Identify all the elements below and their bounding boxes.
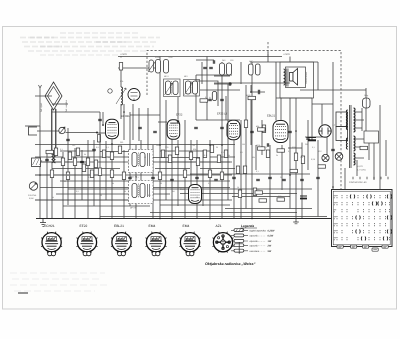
wire — [317, 62, 319, 90]
svg-text:+250V: +250V — [283, 53, 290, 56]
wire — [196, 140, 198, 219]
wire — [150, 180, 230, 182]
wire — [221, 62, 223, 219]
capacitor C17 — [170, 179, 174, 180]
wire — [295, 98, 297, 219]
capacitor C19 — [214, 179, 218, 180]
svg-text:0,2: 0,2 — [288, 150, 291, 153]
junction — [251, 218, 253, 220]
ghost text artifact — [22, 41, 158, 43]
wire antenna lead — [37, 130, 59, 132]
svg-text:7k: 7k — [232, 176, 234, 179]
wire — [210, 156, 235, 158]
resistor R1 — [119, 63, 122, 71]
capacitor C25 — [316, 177, 320, 178]
wire — [240, 120, 242, 219]
legend symbol row 5 — [231, 248, 248, 254]
svg-text:0,2A: 0,2A — [311, 158, 316, 161]
svg-text:0,25W: 0,25W — [268, 229, 276, 232]
resistor R29 — [262, 125, 265, 133]
svg-text:otpornik: otpornik — [250, 245, 259, 248]
wire — [147, 108, 149, 150]
resistor R14 — [161, 150, 164, 158]
svg-text:Osig.: Osig. — [364, 94, 369, 97]
wire — [62, 152, 64, 219]
grid leak resistor — [98, 135, 101, 143]
antenna coupling coil — [52, 150, 56, 163]
capacitor — [258, 90, 259, 94]
wire — [138, 108, 140, 141]
ground bus — [36, 218, 333, 220]
wire — [233, 140, 235, 219]
IF transformer T3 — [220, 63, 232, 75]
junction — [221, 144, 223, 146]
svg-text:2W: 2W — [267, 245, 272, 248]
terminal mark — [380, 177, 382, 180]
capacitor C6 — [250, 131, 254, 132]
svg-text:Legenda: Legenda — [241, 224, 254, 228]
capacitor C3 — [153, 131, 157, 132]
capacitor C13 — [203, 67, 207, 68]
capacitor C14 — [209, 67, 213, 68]
capacitor C1 — [98, 119, 102, 120]
svg-text:6800: 6800 — [209, 97, 212, 101]
svg-text:namotani: namotani — [250, 250, 260, 253]
capacitor C16 — [151, 177, 155, 178]
wire — [129, 112, 131, 206]
wire — [280, 98, 282, 121]
capacitor C23 — [282, 179, 286, 180]
svg-text:1k: 1k — [52, 196, 54, 199]
mains fuse — [363, 98, 371, 108]
svg-text:otpornik: otpornik — [250, 240, 259, 243]
wire — [317, 140, 319, 217]
svg-text:+4,2V: +4,2V — [357, 165, 363, 168]
wire — [102, 112, 104, 125]
wire — [111, 139, 113, 219]
ghost text artifact — [12, 278, 100, 280]
resistor R24 — [243, 166, 246, 174]
resistor R27 — [301, 156, 304, 164]
resistor R36 — [110, 170, 113, 178]
wire — [35, 199, 130, 201]
resistor R34 — [183, 170, 186, 178]
svg-text:0,1: 0,1 — [312, 146, 315, 149]
wire — [305, 136, 327, 138]
dashed chassis boundary — [147, 51, 341, 197]
svg-text:0,5: 0,5 — [96, 146, 99, 149]
resistor R13 — [73, 158, 76, 166]
wire — [267, 52, 269, 62]
tube L4 EBL21 — [273, 121, 288, 143]
tube socket EM4 — [146, 232, 167, 256]
resistor R2 — [54, 148, 57, 156]
resistor R39 — [50, 170, 53, 178]
resistor R22 — [224, 150, 227, 158]
svg-text:0,1: 0,1 — [264, 146, 267, 149]
voltage table row labels — [334, 195, 336, 240]
resistor R23 — [236, 166, 239, 174]
wire — [120, 57, 122, 58]
small oscillator triode — [128, 89, 140, 101]
resistor R20 — [210, 145, 213, 153]
resistor R18 — [196, 158, 199, 166]
IF transformer T1 — [164, 79, 181, 97]
junction — [209, 218, 211, 220]
svg-text:otpornik: otpornik — [250, 235, 259, 238]
svg-text:25k: 25k — [48, 156, 51, 159]
wire — [60, 150, 95, 152]
resistor R17 — [189, 152, 192, 160]
resistor R48 — [318, 165, 326, 168]
table footer box — [337, 245, 343, 248]
svg-text:300: 300 — [120, 141, 123, 144]
wire — [120, 70, 122, 87]
resistor R37 — [122, 172, 125, 180]
tube L2 EF22 — [167, 120, 180, 140]
wire — [105, 141, 107, 200]
capacitor C29 — [208, 99, 212, 100]
capacitor C26 — [331, 149, 335, 150]
svg-text:EF22: EF22 — [176, 114, 183, 117]
wire — [118, 67, 160, 69]
wire — [68, 188, 312, 190]
resistor R11 — [94, 160, 97, 168]
junction — [99, 218, 101, 220]
wire to mixer grid — [66, 132, 97, 134]
wire — [214, 82, 290, 84]
junction — [111, 143, 113, 145]
svg-text:1M: 1M — [180, 156, 183, 159]
padder capacitor — [164, 60, 169, 74]
wire — [288, 147, 302, 149]
wire — [225, 208, 312, 210]
resistor R3 — [68, 152, 71, 160]
wire — [250, 96, 252, 145]
resistor R42 — [258, 147, 266, 150]
wire — [240, 62, 242, 84]
legend symbol row 2 — [231, 234, 248, 237]
svg-text:70k: 70k — [192, 144, 195, 147]
svg-text:ECH21: ECH21 — [121, 115, 130, 118]
oscillator coil box 2 — [129, 181, 154, 204]
resistor R7 — [90, 170, 93, 178]
capacitor C22 — [268, 177, 272, 178]
capacitor C21 — [256, 179, 260, 180]
band switch box — [32, 158, 43, 167]
svg-text:MF I: MF I — [184, 75, 188, 78]
svg-text:3M: 3M — [172, 190, 175, 193]
svg-text:60: 60 — [160, 182, 162, 185]
junction — [67, 174, 69, 176]
ghost text artifact — [24, 46, 154, 48]
wire — [269, 145, 271, 219]
svg-text:10k: 10k — [156, 144, 159, 147]
junction — [209, 144, 211, 146]
junction — [102, 124, 104, 126]
wire — [251, 85, 265, 92]
wire — [39, 126, 41, 219]
svg-text:8k: 8k — [228, 154, 230, 157]
wire — [52, 111, 100, 113]
ghost text artifact — [20, 37, 160, 39]
junction — [159, 218, 161, 220]
svg-text:20: 20 — [100, 194, 102, 197]
capacitor C7 — [288, 131, 292, 132]
dashed boundary stub — [267, 42, 269, 58]
resistor R9 — [110, 152, 113, 160]
capacitor C2 — [138, 127, 142, 128]
resistor R30 — [238, 190, 241, 198]
svg-text:49k: 49k — [256, 125, 259, 128]
wire — [190, 173, 310, 175]
wire — [52, 168, 120, 170]
volume potentiometer — [29, 182, 37, 190]
wire — [152, 145, 154, 219]
wire — [385, 140, 387, 176]
resistor R44 — [277, 149, 285, 152]
wire — [206, 57, 208, 121]
wire — [232, 196, 290, 198]
svg-text:50: 50 — [196, 196, 198, 199]
wire — [245, 85, 247, 209]
wire — [93, 140, 95, 206]
wire — [171, 139, 173, 218]
wire — [160, 204, 230, 206]
wire — [130, 114, 160, 116]
wire — [344, 168, 346, 190]
svg-text:(L7+10%): (L7+10%) — [357, 169, 366, 172]
wire — [373, 143, 375, 180]
wire — [289, 98, 291, 209]
terminal block A — [29, 127, 38, 135]
wire — [312, 103, 333, 105]
table footer box — [363, 245, 369, 248]
capacitor C41 — [213, 60, 214, 64]
IF transformer T2 — [184, 80, 200, 97]
legend symbol row 1 — [231, 229, 248, 232]
ghost text artifact — [28, 50, 148, 52]
svg-text:5k: 5k — [84, 153, 86, 156]
wire — [150, 212, 297, 214]
tube socket AZ1 — [213, 232, 234, 253]
resistor R25 — [266, 150, 269, 158]
svg-text:AFC: AFC — [249, 60, 254, 63]
svg-text:EM4: EM4 — [180, 188, 186, 191]
ghost text artifact — [10, 284, 108, 286]
svg-text:50: 50 — [144, 156, 146, 159]
junction — [39, 174, 41, 176]
capacitor C43 — [177, 120, 178, 124]
grid terminal dot — [96, 132, 98, 134]
svg-text:Izgled otpornika: Izgled otpornika — [249, 229, 266, 232]
junction — [289, 174, 291, 176]
capacitor C10 — [45, 159, 49, 160]
wire — [35, 95, 52, 97]
wire — [99, 112, 101, 219]
wire — [40, 161, 88, 163]
resistor R47 — [360, 146, 368, 149]
svg-text:0,3: 0,3 — [208, 182, 211, 185]
wire — [160, 161, 230, 163]
wire — [326, 137, 328, 155]
stray pencil dash — [18, 292, 28, 294]
tuning gang capacitor C1 — [148, 60, 155, 72]
resistor R41 — [258, 128, 266, 131]
table footer box — [351, 245, 357, 248]
resistor R21 — [217, 155, 220, 163]
svg-text:190k: 190k — [256, 144, 260, 147]
oscillator feedback coil — [116, 87, 126, 105]
svg-text:0,5W: 0,5W — [268, 235, 274, 238]
tube socket EM4 — [180, 232, 201, 256]
wire — [261, 120, 263, 155]
wire — [209, 140, 211, 219]
resistor R33 — [220, 172, 223, 180]
junction — [123, 111, 125, 113]
junction — [332, 186, 334, 188]
junction — [159, 144, 161, 146]
svg-text:ZVUCNA: ZVUCNA — [28, 194, 37, 197]
svg-text:40k: 40k — [252, 156, 255, 159]
tube L1 ECH21 — [106, 119, 119, 139]
dial lamp — [335, 153, 343, 161]
resistor R15 — [168, 155, 171, 163]
wire — [55, 109, 57, 152]
wire — [379, 105, 381, 190]
capacitor C20 — [232, 177, 236, 178]
padder capacitor — [156, 60, 161, 74]
svg-text:220/150/120V~50: 220/150/120V~50 — [349, 181, 367, 184]
ghost text artifact — [10, 272, 105, 274]
wire — [25, 125, 40, 127]
svg-text:1M: 1M — [242, 143, 245, 146]
wire — [63, 205, 150, 207]
terminal mark — [387, 177, 389, 180]
wire — [195, 75, 197, 120]
antenna trimmer — [59, 127, 65, 134]
resistor R28 — [244, 120, 247, 128]
wire — [135, 145, 137, 219]
terminal mark — [359, 177, 361, 180]
wire — [275, 62, 277, 98]
legend symbol row 3 — [231, 239, 248, 242]
svg-text:Ant. vanjska: Ant. vanjska — [65, 99, 68, 112]
svg-text:0,5: 0,5 — [76, 190, 79, 193]
svg-text:ECH21: ECH21 — [44, 224, 55, 228]
wire — [123, 150, 125, 219]
wire — [35, 144, 235, 146]
junction — [295, 130, 297, 132]
resistor R12 — [86, 158, 89, 166]
capacitor C24 — [300, 179, 304, 180]
svg-text:0,1: 0,1 — [136, 176, 139, 179]
junction — [250, 91, 252, 93]
svg-text:25: 25 — [216, 146, 218, 149]
resistor R40 — [61, 158, 64, 166]
wire — [100, 151, 141, 153]
wire — [120, 104, 122, 119]
resistor R10 — [118, 146, 121, 154]
trimmer capacitor — [108, 89, 112, 93]
wire — [356, 160, 358, 176]
resistor R16 — [175, 147, 178, 155]
wire — [200, 168, 235, 170]
svg-text:AZ1: AZ1 — [216, 224, 222, 228]
terminal mark — [373, 177, 375, 180]
wire — [74, 148, 76, 219]
rectifier tube L6 AZ1 — [319, 125, 331, 137]
svg-text:EM4: EM4 — [149, 224, 156, 228]
ghost text artifact — [60, 32, 140, 34]
wire — [123, 104, 125, 140]
wire — [289, 57, 291, 62]
coil — [249, 64, 254, 75]
svg-text:EBL21: EBL21 — [267, 115, 276, 118]
resistor R5 — [82, 164, 85, 172]
svg-text:0,1: 0,1 — [60, 148, 63, 151]
svg-text:9k: 9k — [112, 182, 114, 185]
wire — [301, 143, 303, 219]
tube L3 EF22 — [227, 120, 240, 140]
svg-text:0,1: 0,1 — [132, 148, 135, 151]
svg-text:0,5M: 0,5M — [29, 197, 34, 200]
wire — [177, 97, 179, 120]
resistor R6 — [98, 168, 101, 176]
table footer box — [382, 245, 388, 248]
resistor R51 — [259, 199, 267, 202]
wire — [155, 168, 190, 170]
antenna — [39, 82, 63, 152]
resistor R46 — [248, 96, 256, 99]
resistor R31 — [253, 188, 256, 196]
svg-text:50k: 50k — [193, 148, 196, 151]
tube socket ECH21 — [41, 232, 62, 256]
wire — [52, 103, 68, 105]
wire — [60, 180, 140, 182]
wire — [165, 100, 167, 200]
wire — [300, 89, 366, 91]
wire — [35, 174, 100, 176]
svg-text:2M: 2M — [108, 156, 111, 159]
capacitor C40 — [229, 82, 230, 86]
svg-text:30: 30 — [280, 176, 282, 179]
wire — [35, 156, 63, 158]
wire — [196, 119, 240, 121]
svg-text:4k: 4k — [64, 180, 66, 183]
capacitor C27 — [343, 191, 347, 192]
wire — [332, 62, 334, 190]
wire — [51, 109, 53, 155]
svg-text:0,1: 0,1 — [204, 154, 207, 157]
capacitor C28 — [220, 99, 224, 100]
wire — [281, 145, 283, 190]
resistor R8 — [102, 150, 105, 158]
wire — [184, 120, 186, 219]
ground — [40, 219, 46, 227]
wire — [365, 108, 367, 131]
svg-text:15k: 15k — [300, 156, 303, 159]
wire — [56, 193, 170, 195]
mains switch box — [364, 131, 379, 143]
svg-text:0,5: 0,5 — [240, 151, 243, 154]
svg-text:Ant. njem.: Ant. njem. — [40, 102, 43, 112]
wire — [321, 104, 323, 125]
capacitor C18 — [195, 177, 199, 178]
wire — [214, 75, 230, 77]
capacitor C11 — [80, 161, 84, 162]
electrolytic capacitor — [308, 138, 316, 142]
